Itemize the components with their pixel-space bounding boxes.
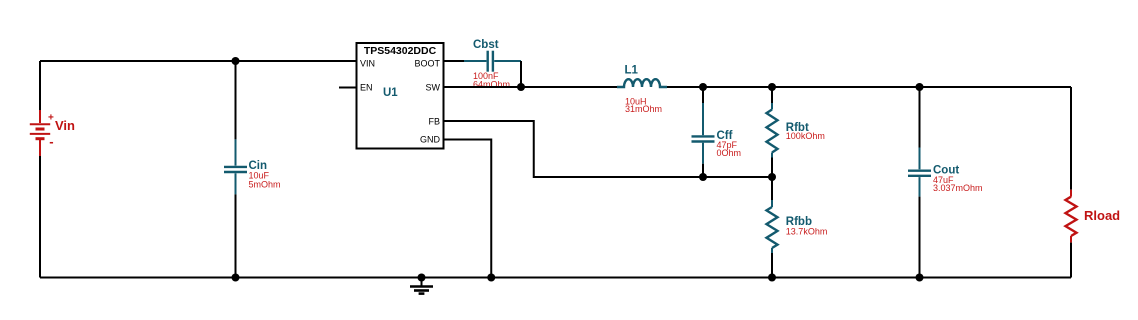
node junction Cbst/SW <box>517 83 525 91</box>
resistor Rfbb <box>767 200 778 253</box>
svg-text:VIN: VIN <box>360 59 375 69</box>
wire right vertical upper (to Rload) <box>1070 87 1072 190</box>
wire FB feedback path <box>444 121 773 177</box>
svg-text:Cbst: Cbst <box>473 39 499 51</box>
svg-text:FB: FB <box>428 117 440 127</box>
svg-text:BOOT: BOOT <box>414 59 440 69</box>
wire Rfbb bottom lead (black) <box>771 253 773 278</box>
node junction feedback divider <box>768 173 776 181</box>
svg-text:GND: GND <box>420 135 441 145</box>
op-amp U1 IC box TPS54302DDC <box>357 43 444 149</box>
svg-text:EN: EN <box>360 83 373 93</box>
svg-text:Vin: Vin <box>55 118 75 133</box>
svg-text:Rload: Rload <box>1084 208 1120 223</box>
wire Cout top lead (black) <box>919 87 921 148</box>
svg-text:0Ohm: 0Ohm <box>717 148 742 158</box>
capacitor Cbst <box>464 51 521 72</box>
capacitor Cin <box>224 139 247 194</box>
svg-text:TPS54302DDC: TPS54302DDC <box>364 45 437 57</box>
wire Cff top lead (black) <box>702 87 704 103</box>
svg-text:5mOhm: 5mOhm <box>249 179 281 189</box>
svg-text:SW: SW <box>426 83 441 93</box>
node junction Cout bottom <box>916 274 924 282</box>
voltage source Vin <box>30 110 54 156</box>
wire SW rail to L1 <box>444 86 618 88</box>
wire L1 to output rail <box>667 86 1071 88</box>
wire bottom ground rail <box>40 277 1071 279</box>
capacitor Cout <box>908 148 931 197</box>
wire right vertical lower <box>1070 243 1072 278</box>
wire left vertical lower (Vin bottom lead) <box>39 156 41 278</box>
resistor Rload <box>1066 190 1077 243</box>
svg-text:13.7kOhm: 13.7kOhm <box>786 227 828 237</box>
wire Cbst drop to SW <box>520 61 522 87</box>
wire Rfbt top lead (black) <box>771 87 773 103</box>
node junction Cin top <box>232 57 240 65</box>
inductor L1 <box>617 79 667 87</box>
svg-text:3.037mOhm: 3.037mOhm <box>933 183 983 193</box>
wire Cin top lead (black) <box>235 61 237 139</box>
node junction Rfbt top <box>768 83 776 91</box>
node junction Cff top <box>699 83 707 91</box>
node junction Cout top <box>916 83 924 91</box>
wire BOOT to Cbst <box>444 60 465 62</box>
svg-text:L1: L1 <box>625 65 639 77</box>
node junction Cin bottom <box>232 274 240 282</box>
wire Rfbb top lead (black) <box>771 177 773 200</box>
svg-text:-: - <box>49 134 53 149</box>
ground symbol <box>410 278 433 294</box>
wire top rail from Vin to U1 VIN pin <box>40 60 357 62</box>
node junction Cff bottom <box>699 173 707 181</box>
node junction ground rail <box>418 274 426 282</box>
svg-text:+: + <box>48 113 54 124</box>
svg-text:100kOhm: 100kOhm <box>786 131 825 141</box>
wire Rfbt bottom lead (black) <box>771 158 773 178</box>
wire Cff bottom lead (black) <box>702 164 704 177</box>
svg-text:U1: U1 <box>383 87 398 99</box>
svg-text:64mOhm: 64mOhm <box>473 80 510 90</box>
wire Cin bottom lead (black) <box>235 194 237 277</box>
node junction GND rail <box>487 274 495 282</box>
wire EN stub <box>339 87 357 89</box>
svg-text:31mOhm: 31mOhm <box>625 104 662 114</box>
resistor Rfbt <box>767 103 778 158</box>
node junction Rfbb ground <box>768 274 776 282</box>
wire Cout bottom lead (black) <box>919 197 921 278</box>
capacitor Cff <box>692 103 715 164</box>
wire GND pin path <box>444 140 492 278</box>
wire left vertical upper (Vin top lead) <box>39 61 41 110</box>
